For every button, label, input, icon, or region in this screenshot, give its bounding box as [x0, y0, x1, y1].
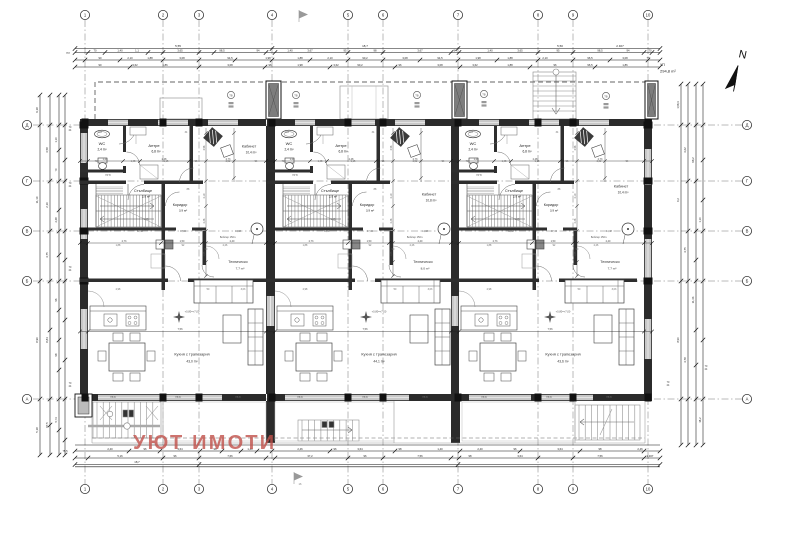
left dimension band [40, 95, 65, 455]
right exterior wall [644, 119, 652, 401]
svg-text:ТФ: ТФ [482, 92, 485, 96]
svg-text:18,7: 18,7 [134, 460, 140, 464]
svg-text:1,88: 1,88 [147, 56, 153, 60]
svg-text:94: 94 [454, 49, 457, 53]
svg-text:ТФ: ТФ [294, 93, 297, 97]
svg-text:1,50: 1,50 [551, 240, 556, 243]
svg-text:96: 96 [334, 447, 337, 451]
svg-text:90: 90 [99, 56, 102, 60]
svg-text:2,10: 2,10 [542, 56, 548, 60]
downpipe markers [227, 91, 234, 98]
svg-text:7,56: 7,56 [417, 454, 423, 458]
svg-text:4,78: 4,78 [683, 357, 687, 363]
svg-text:10,8 m²: 10,8 m² [426, 199, 437, 203]
canopy unit1 [160, 98, 202, 119]
grid bubbles left [22, 120, 31, 403]
left exterior wall [80, 119, 88, 401]
svg-text:3,64: 3,64 [517, 454, 523, 458]
svg-text:2,40: 2,40 [418, 240, 423, 243]
svg-text:2,73: 2,73 [226, 158, 231, 161]
svg-text:2,48: 2,48 [54, 217, 58, 223]
svg-text:5,74: 5,74 [54, 417, 58, 423]
svg-text:1,98: 1,98 [297, 63, 303, 67]
svg-text:36,2: 36,2 [698, 417, 702, 423]
svg-text:9,2: 9,2 [676, 198, 680, 202]
svg-text:2,48: 2,48 [533, 158, 538, 161]
svg-text:98,5: 98,5 [597, 49, 603, 53]
svg-text:ТФ: ТФ [604, 94, 607, 98]
svg-text:7,66: 7,66 [227, 454, 233, 458]
svg-text:1,10: 1,10 [698, 217, 702, 223]
svg-text:96: 96 [364, 454, 367, 458]
party wall 2 [451, 126, 459, 394]
svg-text:37,2: 37,2 [307, 454, 313, 458]
svg-text:3,67: 3,67 [307, 49, 313, 53]
svg-text:Кухня с трапезария: Кухня с трапезария [361, 352, 396, 357]
svg-text:Б: Б [746, 279, 749, 284]
svg-text:3,62: 3,62 [132, 63, 138, 67]
svg-text:77: 77 [647, 56, 650, 60]
svg-text:3,67: 3,67 [417, 49, 423, 53]
porch landing unit3 left [462, 402, 575, 441]
svg-text:А: А [746, 397, 749, 402]
svg-text:95: 95 [344, 49, 347, 53]
svg-text:96: 96 [399, 63, 402, 67]
unit 2 interior [267, 126, 453, 399]
chimney tower 3 [645, 81, 658, 119]
canopy unit2 [340, 86, 388, 119]
svg-text:1,40: 1,40 [437, 447, 443, 451]
svg-text:10: 10 [646, 487, 651, 492]
svg-text:1,88: 1,88 [507, 63, 513, 67]
grid bubbles right [742, 120, 751, 403]
svg-text:1,88: 1,88 [507, 56, 513, 60]
svg-text:96: 96 [269, 63, 272, 67]
svg-text:96: 96 [554, 63, 557, 67]
flag marker bottom [294, 473, 303, 481]
grid bubbles top [80, 10, 652, 19]
svg-text:98,2: 98,2 [691, 157, 695, 163]
svg-text:Б: Б [26, 279, 29, 284]
svg-text:7,56: 7,56 [362, 327, 368, 331]
svg-text:43,6 m²: 43,6 m² [557, 360, 569, 364]
svg-text:1,23: 1,23 [474, 158, 479, 161]
party wall 2 porch extension [451, 401, 460, 443]
porch landing unit1 [163, 402, 266, 441]
svg-text:5,50: 5,50 [557, 44, 563, 48]
svg-text:1,88: 1,88 [297, 56, 303, 60]
svg-text:97,5: 97,5 [45, 422, 49, 428]
structural columns [80, 119, 653, 402]
svg-text:Техническо: Техническо [413, 260, 432, 264]
svg-text:98: 98 [469, 454, 472, 458]
svg-text:98: 98 [399, 447, 402, 451]
svg-text:18,7: 18,7 [362, 44, 368, 48]
svg-text:90,2: 90,2 [357, 63, 363, 67]
svg-text:7,56: 7,56 [597, 454, 603, 458]
svg-text:2,48: 2,48 [349, 158, 354, 161]
svg-text:2,10: 2,10 [127, 56, 133, 60]
svg-text:2,73: 2,73 [413, 158, 418, 161]
svg-text:94: 94 [257, 49, 260, 53]
svg-text:5,55: 5,55 [175, 44, 181, 48]
svg-text:4,75: 4,75 [45, 252, 49, 258]
svg-text:3,64: 3,64 [557, 447, 563, 451]
svg-text:96,5: 96,5 [587, 56, 593, 60]
svg-text:10: 10 [646, 13, 651, 18]
svg-text:8,0 m²: 8,0 m² [421, 267, 430, 271]
right dimension band [681, 84, 703, 445]
svg-text:2,40: 2,40 [107, 447, 113, 451]
svg-text:1,98: 1,98 [475, 56, 481, 60]
svg-text:94: 94 [627, 49, 630, 53]
svg-text:2,73: 2,73 [493, 240, 498, 243]
flag marker top [299, 11, 308, 19]
svg-text:98: 98 [374, 49, 377, 53]
svg-text:ПЛ: ПЛ [66, 51, 70, 55]
svg-text:1,58,4: 1,58,4 [676, 101, 680, 109]
chimney tower 1 [266, 81, 281, 119]
top dimension band [75, 49, 660, 68]
unit 1 interior [80, 126, 266, 399]
svg-text:1,40: 1,40 [287, 49, 293, 53]
svg-text:1,50: 1,50 [367, 240, 372, 243]
svg-text:В: В [26, 229, 29, 234]
porch stair unit1 [88, 402, 161, 438]
svg-text:3,65: 3,65 [177, 49, 183, 53]
svg-text:2,467: 2,467 [647, 454, 654, 458]
svg-text:Техническо: Техническо [600, 260, 619, 264]
external stair unit3 [533, 69, 576, 119]
svg-text:2,10: 2,10 [45, 202, 49, 208]
svg-text:1,23: 1,23 [103, 158, 108, 161]
svg-text:А: А [26, 397, 29, 402]
svg-text:3,08: 3,08 [622, 56, 628, 60]
svg-text:96: 96 [174, 454, 177, 458]
svg-text:7,7 m²: 7,7 m² [236, 267, 245, 271]
svg-text:98,5: 98,5 [219, 49, 225, 53]
svg-text:95: 95 [557, 49, 560, 53]
svg-text:9,18: 9,18 [35, 107, 39, 113]
interior dimension chain y243 [80, 242, 652, 244]
svg-text:3,58: 3,58 [45, 147, 49, 153]
unit 3 interior [451, 126, 637, 399]
svg-text:1,10: 1,10 [54, 137, 58, 143]
party wall 1 porch extension [266, 401, 275, 443]
svg-text:3,64: 3,64 [357, 447, 363, 451]
svg-text:4,75: 4,75 [683, 247, 687, 253]
svg-text:1,98: 1,98 [265, 56, 271, 60]
svg-text:294,8 m²: 294,8 m² [660, 69, 676, 74]
svg-text:Кабинет: Кабинет [242, 145, 257, 149]
svg-text:2,73: 2,73 [309, 240, 314, 243]
svg-text:96: 96 [514, 447, 517, 451]
svg-text:44,1 m²: 44,1 m² [373, 360, 385, 364]
svg-text:1,40: 1,40 [487, 49, 493, 53]
porch stair unit2 [298, 420, 359, 441]
bottom dimension band [75, 445, 660, 467]
svg-text:3,08: 3,08 [437, 63, 443, 67]
svg-text:3,08: 3,08 [179, 56, 185, 60]
svg-text:10,4 m²: 10,4 m² [618, 191, 629, 195]
svg-text:2,46: 2,46 [637, 447, 643, 451]
svg-text:8,90: 8,90 [676, 337, 680, 343]
left wall porch block [75, 394, 92, 417]
svg-text:Д: Д [746, 123, 749, 128]
svg-text:2 467: 2 467 [616, 44, 624, 48]
svg-text:1,86: 1,86 [622, 63, 628, 67]
svg-text:90,2: 90,2 [362, 56, 368, 60]
svg-text:2,40: 2,40 [606, 240, 611, 243]
svg-text:2,73: 2,73 [122, 240, 127, 243]
svg-text:Кабинет: Кабинет [422, 193, 437, 197]
svg-text:2,10: 2,10 [327, 56, 333, 60]
grid axis vertical lines [85, 20, 648, 484]
svg-text:ТФ: ТФ [229, 93, 232, 97]
svg-text:1,1: 1,1 [135, 49, 139, 53]
svg-text:96,5: 96,5 [587, 63, 593, 67]
svg-text:3,62: 3,62 [472, 63, 478, 67]
svg-text:3,08: 3,08 [402, 56, 408, 60]
grid axis horizontal lines [33, 125, 742, 399]
svg-text:7,7 m²: 7,7 m² [608, 267, 617, 271]
svg-text:Кухня с трапезария: Кухня с трапезария [545, 352, 580, 357]
porch landing unit2 left [275, 402, 394, 441]
svg-text:98: 98 [599, 447, 602, 451]
svg-text:2,48: 2,48 [162, 158, 167, 161]
svg-text:70: 70 [94, 49, 97, 53]
svg-text:1,40: 1,40 [117, 49, 123, 53]
porch slab outline [92, 401, 645, 443]
svg-text:Кабинет: Кабинет [614, 185, 629, 189]
svg-text:2,73: 2,73 [598, 158, 603, 161]
svg-text:2,40: 2,40 [477, 447, 483, 451]
svg-text:1,86: 1,86 [162, 63, 168, 67]
svg-text:Кухня с трапезария: Кухня с трапезария [174, 352, 209, 357]
svg-text:1,50: 1,50 [180, 240, 185, 243]
party wall 1 [266, 126, 275, 394]
svg-text:8,90: 8,90 [35, 337, 39, 343]
svg-text:43,0 m²: 43,0 m² [186, 360, 198, 364]
svg-text:5,18: 5,18 [35, 427, 39, 433]
svg-text:70: 70 [649, 49, 652, 53]
porch dashed edge [92, 437, 645, 439]
svg-text:УЮТ ИМОТИ: УЮТ ИМОТИ [133, 432, 276, 454]
svg-text:1,23: 1,23 [290, 158, 295, 161]
svg-text:В: В [746, 229, 749, 234]
svg-text:Техническо: Техническо [228, 260, 247, 264]
svg-text:94,5: 94,5 [437, 56, 443, 60]
svg-text:2,40: 2,40 [230, 240, 235, 243]
roof overhang dashed outline [95, 82, 655, 119]
grid bubbles bottom [80, 484, 652, 493]
svg-text:Д: Д [26, 123, 29, 128]
svg-text:ТФ: ТФ [415, 93, 418, 97]
bottom exterior wall [80, 394, 266, 401]
svg-text:11,36: 11,36 [691, 296, 695, 303]
chimney tower 2 [452, 81, 467, 119]
svg-text:3,65: 3,65 [517, 49, 523, 53]
svg-text:2,46: 2,46 [297, 447, 303, 451]
svg-text:3,08: 3,08 [227, 63, 233, 67]
top exterior wall [80, 119, 266, 126]
svg-text:7,56: 7,56 [177, 327, 183, 331]
svg-text:11,10: 11,10 [35, 196, 39, 203]
svg-text:3,62: 3,62 [333, 63, 339, 67]
svg-text:5,16: 5,16 [117, 454, 123, 458]
interior dimension chain y331.5 [80, 331, 652, 333]
svg-text:УП: УП [660, 63, 665, 67]
svg-text:3,62: 3,62 [683, 147, 687, 153]
svg-text:90: 90 [99, 63, 102, 67]
interior dimension chain y161 [80, 160, 652, 162]
svg-text:94,5: 94,5 [227, 56, 233, 60]
svg-text:7,56: 7,56 [547, 327, 553, 331]
svg-text:10,4 m²: 10,4 m² [246, 151, 257, 155]
svg-text:8,84: 8,84 [45, 337, 49, 343]
porch stair unit3 [575, 405, 640, 440]
